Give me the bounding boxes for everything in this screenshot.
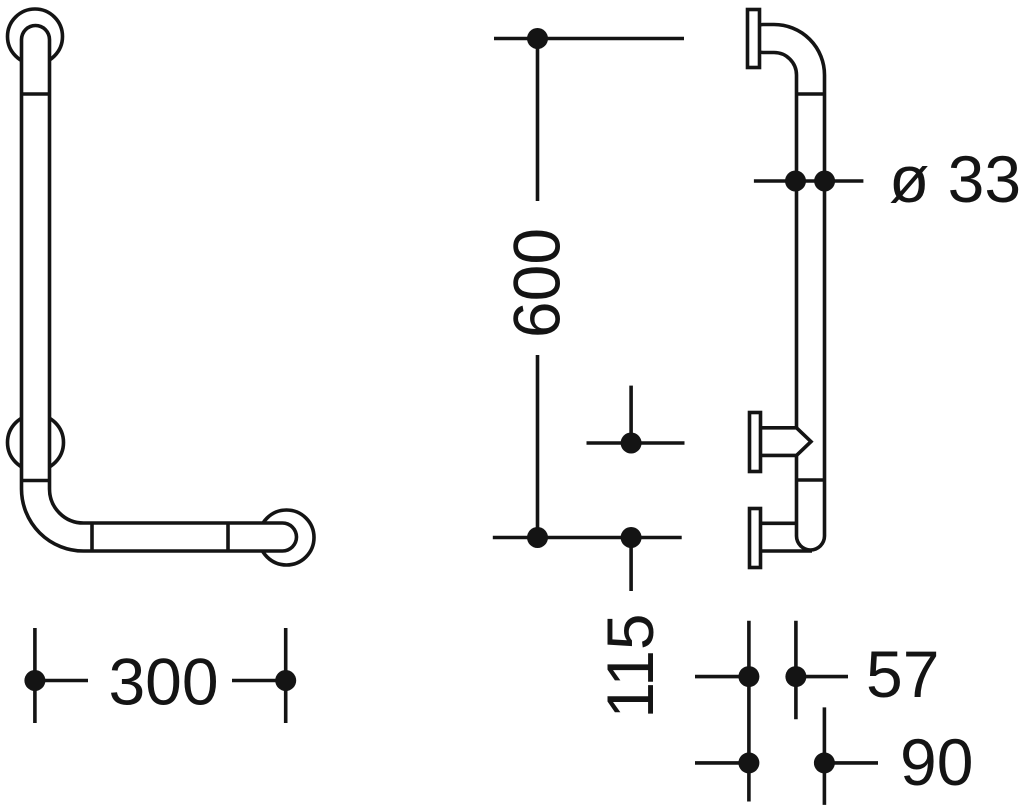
90 right extension line	[823, 707, 827, 805]
300 right extension line	[284, 628, 288, 723]
joint line below top flange	[20, 92, 51, 96]
joint line right of elbow	[90, 522, 94, 553]
ø33 dimension line	[754, 179, 864, 183]
115 upper extension segment	[629, 386, 633, 443]
57 left dot	[738, 666, 759, 687]
115 middle reference line	[587, 441, 685, 445]
bottom mount arm (two lines under tube)	[756, 521, 799, 525]
middle mount arm with pointed tip (over tube)	[756, 428, 811, 456]
side tube joint line (top)	[797, 92, 825, 96]
300 dimension line left segment	[33, 679, 88, 683]
svg-text:600: 600	[500, 228, 574, 338]
115 middle dot	[621, 433, 642, 454]
L-shaped tube core (white)	[36, 40, 283, 538]
57 right dot	[785, 666, 806, 687]
top wall flange (circle)	[8, 9, 63, 64]
top wall flange plate	[748, 10, 760, 68]
90 right dot	[814, 752, 835, 773]
90 dimension line left segment	[695, 761, 757, 765]
joint line above elbow	[20, 479, 51, 483]
57 dimension line right segment	[788, 675, 849, 679]
middle wall flange plate	[750, 413, 761, 472]
600 bottom reference line	[493, 536, 682, 540]
600 top dot	[527, 28, 548, 49]
ø33 left dot	[785, 171, 806, 192]
bottom wall flange plate	[750, 509, 761, 568]
svg-text:115: 115	[593, 613, 667, 718]
side tube joint line (bottom)	[797, 478, 825, 482]
side tube outline (black)	[763, 39, 811, 537]
115 bottom dot	[621, 527, 642, 548]
svg-text:90: 90	[900, 725, 973, 799]
svg-text:300: 300	[108, 645, 218, 719]
57/90 shared left extension line	[747, 621, 751, 802]
side tube core (white)	[763, 39, 811, 537]
svg-text:57: 57	[866, 637, 939, 711]
115 lower extension segment	[629, 538, 633, 592]
right wall flange (circle)	[259, 510, 314, 565]
joint line before right flange	[226, 522, 230, 553]
300 left dot	[24, 670, 45, 691]
600 top reference line	[494, 37, 684, 41]
lower-left wall flange (circle)	[8, 415, 64, 471]
90 dimension line right segment	[814, 761, 878, 765]
300 left extension line	[33, 628, 37, 723]
300 right dot	[275, 670, 296, 691]
ø33 right dot	[814, 171, 835, 192]
600 dimension line lower segment	[536, 355, 540, 538]
57 right extension line	[794, 621, 798, 719]
300 dimension line right segment	[232, 679, 287, 683]
57 dimension line left segment	[695, 675, 757, 679]
L-shaped tube outline (black)	[36, 40, 283, 538]
600 dimension line upper segment	[536, 39, 540, 202]
90 left dot	[738, 752, 759, 773]
600 bottom dot	[527, 527, 548, 548]
svg-text:ø 33: ø 33	[889, 142, 1021, 216]
